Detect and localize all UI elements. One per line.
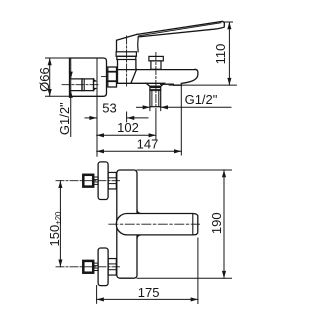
dimension Ø66: bottom extension line xyxy=(46,95,70,97)
dimension 53: left line with arrow xyxy=(85,116,97,120)
svg-text:190: 190 xyxy=(209,212,224,234)
side view: diverter knob stem xyxy=(151,61,161,69)
side view: body right edge xyxy=(135,60,137,70)
side view: wall flange (escutcheon) xyxy=(70,58,107,96)
dimension 110: bottom extension line xyxy=(169,84,236,86)
dimension Ø66: dimension line xyxy=(49,58,51,96)
front view: bottom union flange xyxy=(98,248,108,286)
svg-text:G1/2": G1/2" xyxy=(57,102,72,135)
dimension 102: left arrow xyxy=(97,133,104,137)
dimension 150: dimension line xyxy=(59,181,61,267)
side view: diverter knob cap xyxy=(149,56,163,61)
side view: handle base xyxy=(117,34,139,51)
dimension G1/2 left: lower arrow xyxy=(69,91,73,98)
front view: body xyxy=(117,170,141,278)
dimension 190: top extension line xyxy=(137,169,232,171)
dimension 102: dimension line xyxy=(97,134,156,136)
svg-text:110: 110 xyxy=(213,44,228,65)
dimension 110: bottom arrow xyxy=(227,78,231,85)
side view: spout top edge xyxy=(118,69,196,71)
dimension 175: left extension line xyxy=(96,286,98,304)
side view: body bottom edge xyxy=(118,82,147,84)
dimension 110: top arrow xyxy=(227,22,231,29)
svg-text:102: 102 xyxy=(117,120,139,135)
dimension 147: left arrow xyxy=(97,149,104,153)
dimension 150: bottom arrow xyxy=(58,260,62,267)
front view: bottom union square fitting xyxy=(83,261,93,273)
dimension G1/2 right: extension lines xyxy=(150,107,161,111)
dimension G1/2 right: left leader with arrow xyxy=(137,105,150,109)
dimension 110: top extension line xyxy=(224,21,232,23)
dimension G1/2 left: upper arrow xyxy=(69,72,73,79)
dimension 53: extension tick of handle axis xyxy=(126,112,128,122)
side view: body left edge xyxy=(117,60,119,84)
dimension G1/2 left: leader line xyxy=(70,58,72,137)
side view: shower outlet threaded stem xyxy=(150,86,161,106)
dimension 147: right arrow xyxy=(174,149,181,153)
dimension 150: top arrow xyxy=(58,181,62,188)
front view: top union square fitting xyxy=(83,175,93,187)
side view: lever handle xyxy=(137,21,224,37)
dimension Ø66: bottom arrow xyxy=(48,89,52,96)
side view: diverter / outlet centerline xyxy=(155,53,157,112)
dimension G1/2 right: right leader with arrow xyxy=(161,105,231,109)
dimension 175: right arrow xyxy=(191,297,198,301)
side view: aerator underside line xyxy=(174,84,182,86)
dimension 190: bottom extension line xyxy=(137,277,232,279)
front view: bottom union connector xyxy=(93,263,98,270)
svg-text:Ø66: Ø66 xyxy=(37,67,52,92)
front view: top union centerline xyxy=(56,180,120,182)
svg-text:147: 147 xyxy=(137,136,159,151)
front view: top union flange xyxy=(98,162,108,200)
svg-text:G1/2": G1/2" xyxy=(185,92,218,107)
dimension 102: right arrow xyxy=(149,133,156,137)
front view: bottom union centerline xyxy=(56,266,120,268)
dimension 175: left arrow xyxy=(97,297,104,301)
dimension 53: right line with arrow xyxy=(127,116,148,120)
dimension Ø66: top extension line xyxy=(46,57,70,59)
dimension 175: right extension line xyxy=(197,238,199,304)
side view: body taper edge xyxy=(131,69,137,83)
side view: aerator step xyxy=(172,83,175,86)
svg-text:175: 175 xyxy=(138,285,160,300)
side view: union hex nut xyxy=(102,67,117,87)
side view: wall plane extension line xyxy=(96,58,98,156)
dimension 110: dimension line xyxy=(228,22,230,85)
side view: handle collar upper band xyxy=(116,52,136,57)
dimension 147: right extension line (aerator axis) xyxy=(180,85,182,156)
dimension 190: bottom arrow xyxy=(222,271,226,278)
front view: spout (pill shape) xyxy=(116,214,197,235)
side view: inlet fitting centerline xyxy=(62,84,100,86)
side view: handle axis centerline xyxy=(126,36,128,88)
dimension 102: outlet axis extension line xyxy=(155,112,157,140)
dimension Ø66: top arrow xyxy=(48,58,52,65)
side view: shower outlet collar xyxy=(146,83,164,86)
dimension 175: dimension line xyxy=(97,298,198,300)
side view: G1/2 inlet fitting xyxy=(70,79,97,91)
dimension 190: top arrow xyxy=(222,170,226,177)
side view: spout tip outline xyxy=(181,69,198,83)
front view: top union hex nut xyxy=(108,172,116,189)
front view: spout centerline xyxy=(109,223,200,225)
svg-text:53: 53 xyxy=(102,101,116,116)
front view: bottom union hex nut xyxy=(108,259,116,276)
dimension 190: dimension line xyxy=(223,170,225,278)
side view: handle collar lower band xyxy=(117,56,136,59)
svg-text:150±20: 150±20 xyxy=(47,211,63,247)
front view: top union connector xyxy=(93,177,98,184)
dimension 147: dimension line xyxy=(97,150,182,152)
side view: spout bottom edge xyxy=(161,83,174,85)
